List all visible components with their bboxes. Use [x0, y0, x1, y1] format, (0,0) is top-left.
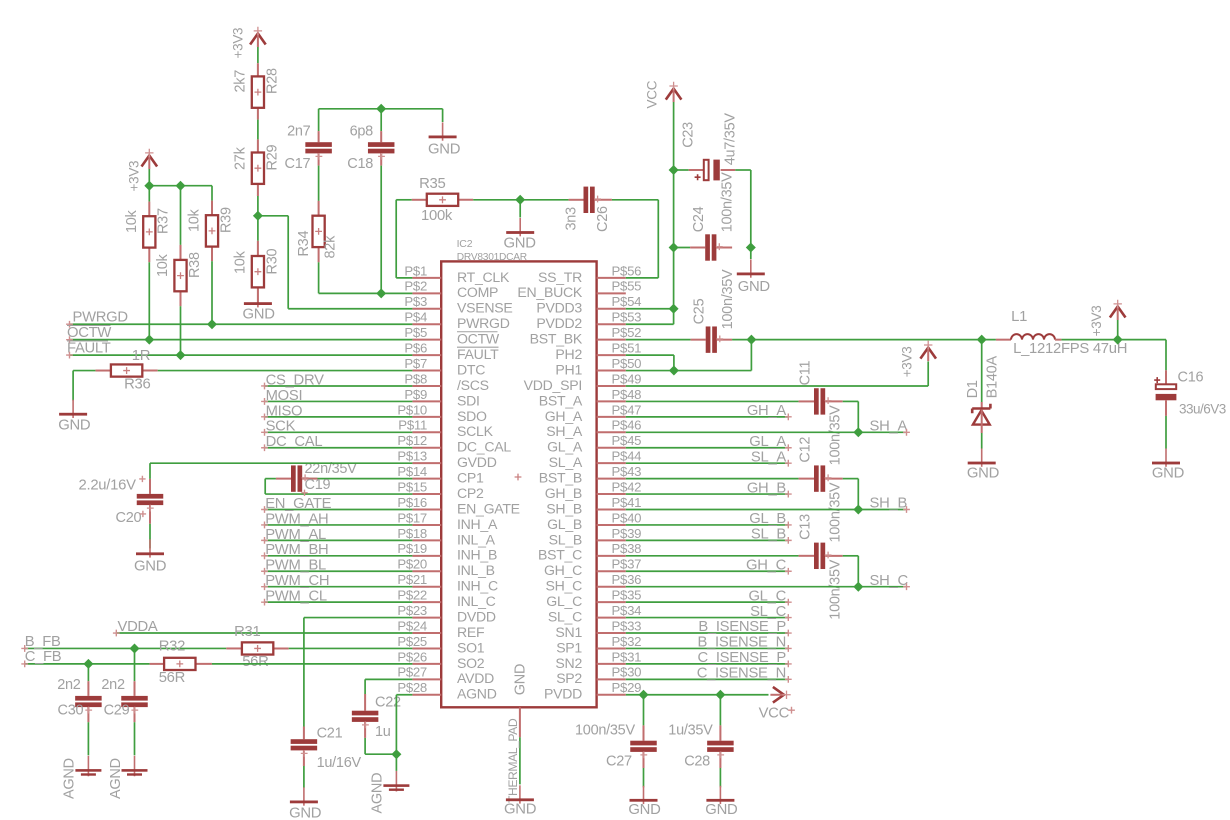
svg-text:+3V3: +3V3 — [127, 161, 142, 192]
node C18 top — [376, 104, 386, 114]
resistor R34 82k — [318, 166, 320, 201]
ground AGND below C30 — [87, 756, 89, 777]
node R29/R30 VSENSE — [253, 211, 263, 221]
wire C30 to AGND — [87, 722, 89, 755]
pin P$52 — [597, 339, 626, 341]
svg-text:AGND: AGND — [370, 773, 386, 814]
svg-text:82k: 82k — [323, 235, 339, 259]
svg-text:56R: 56R — [159, 670, 186, 686]
pin P$14 — [412, 478, 441, 480]
svg-text:VCC: VCC — [645, 80, 660, 108]
svg-text:100n/35V: 100n/35V — [828, 559, 844, 619]
pin P$34 — [597, 617, 626, 619]
pin P$20 — [412, 570, 441, 572]
supply VCC right arrow — [773, 687, 784, 703]
svg-text:10k: 10k — [155, 253, 171, 277]
svg-text:P$12: P$12 — [397, 433, 427, 448]
pin P$23 — [412, 617, 441, 619]
svg-text:SS_TR: SS_TR — [538, 269, 582, 285]
svg-text:C23: C23 — [680, 122, 696, 148]
svg-text:2.2u/16V: 2.2u/16V — [79, 477, 137, 493]
svg-text:P$37: P$37 — [612, 557, 642, 572]
svg-text:+3V3: +3V3 — [1089, 306, 1104, 337]
svg-text:SO1: SO1 — [457, 639, 485, 655]
svg-text:SDI: SDI — [457, 392, 480, 408]
svg-text:B_ISENSE_P: B_ISENSE_P — [698, 619, 786, 635]
node C23 rail — [669, 165, 679, 175]
svg-text:P$19: P$19 — [397, 541, 427, 556]
svg-text:FAULT: FAULT — [457, 346, 499, 362]
svg-text:56R: 56R — [242, 654, 269, 670]
pin P$37 — [597, 570, 626, 572]
svg-text:C21: C21 — [317, 726, 343, 742]
node D1 anode — [977, 335, 987, 345]
wire C21 to GND — [303, 766, 305, 788]
svg-text:GND: GND — [738, 279, 771, 295]
capacitor C25 100n/35V — [626, 339, 691, 341]
svg-text:2k7: 2k7 — [233, 70, 249, 93]
svg-text:R37: R37 — [156, 208, 172, 234]
svg-text:C_ISENSE_P: C_ISENSE_P — [698, 650, 787, 666]
svg-text:P$39: P$39 — [612, 526, 642, 541]
svg-text:C27: C27 — [606, 753, 632, 769]
capacitor C22 1u — [364, 694, 366, 711]
node AGND — [391, 749, 401, 759]
svg-text:100k: 100k — [421, 208, 453, 224]
svg-text:SH_A: SH_A — [546, 423, 583, 439]
svg-text:PWM_CL: PWM_CL — [265, 589, 327, 605]
net PWM_CL wire — [264, 601, 412, 603]
svg-text:P$28: P$28 — [397, 680, 427, 695]
svg-text:100n/35V: 100n/35V — [828, 482, 844, 542]
supply +3V3 output — [1110, 307, 1126, 318]
svg-text:GND: GND — [504, 235, 537, 251]
svg-text:SH_C: SH_C — [546, 578, 583, 594]
capacitor C17 2n7 — [318, 109, 320, 131]
svg-text:P$47: P$47 — [612, 402, 642, 417]
svg-text:MISO: MISO — [266, 403, 303, 419]
svg-text:P$14: P$14 — [397, 464, 427, 479]
node GND tap — [515, 195, 525, 205]
node C28 — [715, 690, 725, 700]
IC thermal pad pin — [519, 707, 521, 737]
svg-text:RT_CLK: RT_CLK — [457, 269, 510, 285]
ground GND at thermal pad — [519, 785, 521, 803]
pin P$48 — [597, 400, 626, 402]
svg-text:BST_B: BST_B — [539, 470, 582, 486]
pin P$19 — [412, 555, 441, 557]
node FAULT/R38 — [176, 350, 186, 360]
svg-text:P$6: P$6 — [404, 341, 427, 356]
wire R38 to FAULT net — [180, 306, 182, 355]
pin P$40 — [597, 524, 626, 526]
svg-text:P$52: P$52 — [612, 325, 642, 340]
svg-text:P$22: P$22 — [397, 588, 427, 603]
svg-text:R31: R31 — [234, 624, 260, 640]
svg-text:P$48: P$48 — [612, 387, 642, 402]
svg-text:GH_A: GH_A — [545, 408, 583, 424]
svg-text:INH_C: INH_C — [457, 578, 498, 594]
svg-text:SCK: SCK — [266, 419, 296, 435]
pin P$22 — [412, 601, 441, 603]
net GL_A wire — [626, 447, 789, 449]
svg-text:P$46: P$46 — [612, 418, 642, 433]
net EN_GATE wire — [264, 509, 412, 511]
svg-text:C28: C28 — [684, 753, 710, 769]
svg-text:P$20: P$20 — [397, 557, 427, 572]
svg-text:R39: R39 — [218, 207, 234, 233]
svg-text:SP1: SP1 — [556, 639, 582, 655]
svg-text:PVDD2: PVDD2 — [536, 315, 582, 331]
svg-text:C12: C12 — [798, 437, 814, 463]
svg-text:10k: 10k — [124, 209, 140, 233]
svg-text:P$8: P$8 — [404, 371, 427, 386]
capacitor C30 2n2 — [87, 664, 89, 681]
pin P$29 — [597, 694, 626, 696]
svg-text:BST_C: BST_C — [538, 547, 582, 563]
wire PVDD2 P$53 — [626, 323, 674, 325]
svg-text:P$35: P$35 — [612, 588, 642, 603]
svg-text:B_ISENSE_N: B_ISENSE_N — [698, 635, 787, 651]
ground GND top — [442, 109, 444, 122]
net VDDA wire — [116, 632, 413, 634]
svg-text:C26: C26 — [595, 206, 611, 232]
svg-text:L_1212FPS 47uH: L_1212FPS 47uH — [1013, 341, 1127, 357]
svg-text:D1: D1 — [965, 380, 981, 398]
svg-text:GVDD: GVDD — [457, 454, 497, 470]
svg-text:AGND: AGND — [457, 686, 497, 702]
svg-text:PH2: PH2 — [555, 346, 582, 362]
node COMP — [376, 288, 386, 298]
ground GND below C21 — [303, 787, 305, 805]
capacitor C27 100n/35V — [643, 695, 645, 726]
capacitor C23 4u7/35V polarized — [674, 169, 689, 171]
svg-text:EN_GATE: EN_GATE — [457, 500, 520, 516]
net DC_CAL wire — [264, 447, 412, 449]
pin P$7 — [412, 370, 441, 372]
svg-text:P$4: P$4 — [404, 310, 427, 325]
svg-text:FAULT: FAULT — [67, 340, 111, 356]
svg-text:6p8: 6p8 — [350, 123, 374, 139]
svg-text:P$18: P$18 — [397, 526, 427, 541]
pin P$49 — [597, 385, 626, 387]
capacitor C13 100n/35V — [626, 555, 799, 557]
wire R37 to OCTW net — [148, 262, 150, 339]
svg-text:INL_B: INL_B — [457, 562, 495, 578]
net SH_C wire — [626, 586, 906, 588]
pin P$53 — [597, 323, 626, 325]
svg-text:P$54: P$54 — [612, 294, 642, 309]
svg-text:100n/35V: 100n/35V — [575, 723, 635, 739]
node C29 tap — [130, 643, 140, 653]
resistor R39 10k — [211, 186, 213, 201]
net SH_A wire — [626, 431, 906, 433]
wire C16 to GND — [1165, 416, 1167, 449]
ground GND below R30 — [257, 289, 259, 307]
svg-text:SL_B: SL_B — [751, 527, 786, 543]
wire R28-R29 — [257, 120, 259, 140]
svg-text:COMP: COMP — [457, 284, 498, 300]
wire C28 to GND — [719, 768, 721, 787]
net SL_C wire — [626, 617, 789, 619]
pin P$11 — [412, 431, 441, 433]
svg-text:SH_A: SH_A — [870, 419, 908, 435]
svg-text:P$33: P$33 — [612, 618, 642, 633]
net SCK wire — [264, 431, 412, 433]
node PVDD3 — [669, 304, 679, 314]
svg-text:GND: GND — [628, 802, 661, 818]
capacitor C29 2n2 — [134, 648, 136, 681]
ground GND below C28 — [719, 786, 721, 804]
ground GND below C24 — [750, 259, 752, 277]
net PWM_BL wire — [264, 570, 412, 572]
wire R31 to SO1 P$25 — [289, 647, 413, 649]
pin P$45 — [597, 447, 626, 449]
svg-text:P$56: P$56 — [612, 263, 642, 278]
svg-text:REF: REF — [457, 624, 485, 640]
svg-text:P$34: P$34 — [612, 603, 642, 618]
svg-text:SL_A: SL_A — [751, 449, 786, 465]
wire VCC down rail — [673, 102, 675, 324]
svg-text:P$55: P$55 — [612, 279, 642, 294]
svg-text:P$25: P$25 — [397, 634, 427, 649]
node R39 top — [176, 181, 186, 191]
svg-text:EN_BUCK: EN_BUCK — [517, 284, 582, 300]
net B_ISENSE_N wire — [626, 647, 789, 649]
svg-text:GH_B: GH_B — [747, 480, 787, 496]
svg-text:BST_A: BST_A — [539, 392, 583, 408]
svg-text:GL_A: GL_A — [749, 434, 786, 450]
svg-text:SL_C: SL_C — [548, 608, 582, 624]
pin P$8 — [412, 385, 441, 387]
net FAULT wire — [69, 354, 412, 356]
svg-text:1R: 1R — [132, 348, 151, 364]
wire switch node to L1/D1 — [751, 339, 996, 341]
svg-text:DRV8301DCAR: DRV8301DCAR — [457, 252, 527, 263]
svg-text:CP1: CP1 — [457, 470, 484, 486]
svg-text:DVDD: DVDD — [457, 608, 496, 624]
wire C20 to GND — [149, 524, 151, 549]
svg-text:PWRGD: PWRGD — [457, 315, 510, 331]
svg-text:AVDD: AVDD — [457, 670, 494, 686]
svg-text:GL_B: GL_B — [547, 516, 582, 532]
wire L1 to +3V3/C16 — [1061, 339, 1166, 341]
capacitor C21 1u/16V — [303, 727, 305, 740]
svg-text:1u/35V: 1u/35V — [668, 723, 713, 739]
svg-text:P$42: P$42 — [612, 479, 642, 494]
net C_FB wire — [24, 663, 149, 665]
svg-text:GH_C: GH_C — [544, 562, 582, 578]
svg-text:R30: R30 — [264, 249, 280, 275]
svg-text:SH_B: SH_B — [870, 496, 908, 512]
pin P$24 — [412, 632, 441, 634]
node +3V3 out — [1113, 335, 1123, 345]
capacitor C11 100n/35V — [626, 400, 799, 402]
svg-text:CS_DRV: CS_DRV — [266, 372, 324, 388]
svg-text:P$23: P$23 — [397, 603, 427, 618]
svg-text:C18: C18 — [347, 156, 373, 172]
svg-text:P$45: P$45 — [612, 433, 642, 448]
pin P$32 — [597, 647, 626, 649]
svg-text:OCTW: OCTW — [67, 325, 111, 341]
wire +3V3 to R28 — [257, 47, 259, 63]
ground GND below R36 — [72, 400, 74, 418]
node C24 rail — [669, 243, 679, 253]
svg-text:SP2: SP2 — [556, 670, 582, 686]
pin P$42 — [597, 493, 626, 495]
wire R29 to node, node to R30 — [257, 196, 259, 241]
svg-text:C16: C16 — [1178, 369, 1204, 385]
svg-text:C13: C13 — [798, 514, 814, 540]
svg-text:PVDD3: PVDD3 — [536, 300, 582, 316]
svg-text:2n2: 2n2 — [101, 677, 125, 693]
svg-text:P$51: P$51 — [612, 341, 642, 356]
svg-text:SN1: SN1 — [555, 624, 582, 640]
supply VCC top — [666, 89, 682, 100]
svg-text:P$10: P$10 — [397, 402, 427, 417]
svg-text:C25: C25 — [692, 298, 708, 324]
node SH junction C12 — [853, 505, 863, 515]
svg-text:P$36: P$36 — [612, 572, 642, 587]
net SL_A wire — [626, 462, 789, 464]
svg-text:R28: R28 — [264, 68, 280, 94]
svg-text:SL_C: SL_C — [750, 604, 786, 620]
svg-text:P$24: P$24 — [397, 618, 427, 633]
svg-text:OCTW: OCTW — [457, 331, 500, 347]
svg-text:PWM_AL: PWM_AL — [265, 527, 326, 543]
svg-text:GND: GND — [967, 466, 1000, 482]
wire R32 to SO2 P$26 — [212, 663, 413, 665]
svg-text:P$3: P$3 — [404, 294, 427, 309]
wire DVDD P$23 to C21 — [304, 617, 413, 619]
pin P$30 — [597, 678, 626, 680]
svg-text:P$53: P$53 — [612, 310, 642, 325]
svg-text:P$5: P$5 — [404, 325, 427, 340]
svg-text:GND: GND — [243, 307, 276, 323]
pin P$2 — [412, 292, 441, 294]
svg-text:P$7: P$7 — [404, 356, 427, 371]
svg-text:1u: 1u — [375, 724, 391, 740]
pin P$17 — [412, 524, 441, 526]
svg-text:2n7: 2n7 — [287, 123, 311, 139]
svg-text:R35: R35 — [419, 176, 445, 192]
svg-text:VDDA: VDDA — [118, 619, 158, 635]
svg-text:3n3: 3n3 — [563, 207, 579, 231]
svg-text:100n/35V: 100n/35V — [720, 172, 736, 232]
net SL_B wire — [626, 539, 789, 541]
wire GVDD P$13 to C20 — [150, 462, 412, 464]
pin P$50 — [597, 370, 626, 372]
net PWM_BH wire — [264, 555, 412, 557]
svg-text:DC_CAL: DC_CAL — [266, 434, 323, 450]
pin P$26 — [412, 663, 441, 665]
wire D1 to GND — [981, 433, 983, 449]
svg-text:GH_A: GH_A — [747, 403, 787, 419]
svg-text:AGND: AGND — [108, 758, 124, 799]
svg-text:P$21: P$21 — [397, 572, 427, 587]
pin P$5 — [412, 339, 441, 341]
net PVDD wire to VCC — [626, 694, 769, 696]
pin P$1 — [412, 277, 441, 279]
svg-text:B140A: B140A — [984, 356, 1000, 399]
net GH_B wire — [626, 493, 789, 495]
pin P$27 — [412, 678, 441, 680]
wire to GND — [750, 248, 752, 260]
svg-text:R38: R38 — [187, 252, 203, 278]
svg-text:C29: C29 — [104, 703, 130, 719]
svg-text:P$17: P$17 — [397, 510, 427, 525]
resistor R37 10k — [148, 186, 150, 202]
pin P$36 — [597, 586, 626, 588]
svg-text:2n2: 2n2 — [57, 677, 81, 693]
svg-text:P$31: P$31 — [612, 649, 642, 664]
net GL_C wire — [626, 601, 789, 603]
svg-text:P$15: P$15 — [397, 479, 427, 494]
wire C18 to COMP node — [380, 166, 382, 294]
ground GND below R35 node — [519, 200, 521, 218]
capacitor C12 100n/35V — [626, 478, 799, 480]
svg-text:SDO: SDO — [457, 408, 487, 424]
wire C19 to CP2 loop — [265, 478, 276, 480]
svg-text:R36: R36 — [124, 377, 150, 393]
pin P$25 — [412, 647, 441, 649]
svg-text:MOSI: MOSI — [266, 388, 303, 404]
wire top rail C17-C18-GND — [319, 108, 443, 110]
net PWRGD wire — [69, 323, 412, 325]
net PWM_CH wire — [264, 586, 412, 588]
svg-text:GND: GND — [134, 558, 167, 574]
svg-text:C20: C20 — [116, 510, 142, 526]
pin P$55 — [597, 292, 626, 294]
svg-text:AGND: AGND — [61, 758, 77, 799]
svg-text:INL_C: INL_C — [457, 593, 496, 609]
svg-text:GND: GND — [513, 664, 529, 695]
svg-text:PH1: PH1 — [555, 361, 582, 377]
net PWM_AL wire — [264, 539, 412, 541]
capacitor C20 2.2u/16V — [149, 479, 151, 494]
svg-text:GND: GND — [428, 141, 461, 157]
wire node to P$3 VSENSE — [258, 215, 288, 217]
ground GND below C16 — [1165, 449, 1167, 467]
node buck switch — [746, 335, 756, 345]
svg-text:PWM_BL: PWM_BL — [265, 558, 326, 574]
pin P$35 — [597, 601, 626, 603]
pin P$39 — [597, 539, 626, 541]
net SH_B wire — [626, 509, 906, 511]
node PH1 — [669, 366, 679, 376]
svg-text:P$41: P$41 — [612, 495, 642, 510]
svg-text:R34: R34 — [296, 231, 312, 257]
svg-text:GND: GND — [58, 418, 91, 434]
supply +3V3 left — [142, 156, 158, 167]
svg-text:10k: 10k — [233, 250, 249, 274]
svg-text:P$2: P$2 — [404, 279, 427, 294]
node C27 — [639, 690, 649, 700]
svg-text:P$27: P$27 — [397, 665, 427, 680]
supply +3V3 top — [250, 34, 266, 45]
svg-text:GND: GND — [504, 802, 537, 818]
node SH junction C11 — [853, 427, 863, 437]
svg-text:P$44: P$44 — [612, 449, 642, 464]
svg-text:C11: C11 — [798, 361, 814, 386]
svg-text:27k: 27k — [233, 146, 249, 170]
svg-text:THERMAL_PAD: THERMAL_PAD — [506, 718, 520, 803]
net C_ISENSE_P wire — [626, 663, 789, 665]
pin P$38 — [597, 555, 626, 557]
svg-text:P$30: P$30 — [612, 665, 642, 680]
svg-text:SL_A: SL_A — [549, 454, 583, 470]
pin P$18 — [412, 539, 441, 541]
